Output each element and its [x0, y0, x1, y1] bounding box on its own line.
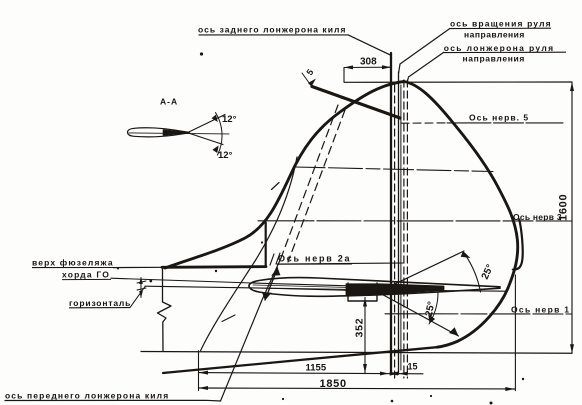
svg-text:1155: 1155 [306, 362, 327, 373]
svg-text:1850: 1850 [320, 378, 347, 390]
svg-text:Ось нерв 2а: Ось нерв 2а [278, 254, 351, 264]
svg-text:25°: 25° [424, 301, 438, 318]
svg-text:горизонталь: горизонталь [69, 298, 131, 308]
svg-text:ось вращения руля: ось вращения руля [450, 19, 552, 29]
svg-text:ось лонжерона руля: ось лонжерона руля [444, 43, 555, 53]
svg-text:А-А: А-А [160, 97, 178, 107]
svg-text:Ось нерв 1: Ось нерв 1 [511, 305, 570, 315]
svg-text:хорда ГО: хорда ГО [62, 270, 110, 280]
svg-text:25°: 25° [480, 263, 496, 281]
svg-text:5: 5 [304, 67, 315, 77]
svg-text:верх фюзеляжа: верх фюзеляжа [32, 258, 114, 268]
svg-text:352: 352 [354, 318, 366, 338]
svg-text:12°: 12° [218, 150, 233, 161]
svg-text:308: 308 [360, 57, 377, 68]
svg-text:Ось нерв. 5: Ось нерв. 5 [469, 113, 529, 123]
svg-text:15: 15 [408, 362, 418, 372]
svg-text:направления: направления [464, 30, 525, 40]
svg-text:Ось нерв 3: Ось нерв 3 [513, 212, 562, 222]
svg-text:ось переднего лонжерона киля: ось переднего лонжерона киля [5, 391, 169, 401]
svg-text:ось заднего лонжерона киля: ось заднего лонжерона киля [198, 25, 346, 35]
svg-text:1600: 1600 [558, 194, 570, 221]
svg-text:12°: 12° [222, 114, 237, 125]
svg-text:направления: направления [463, 54, 526, 64]
